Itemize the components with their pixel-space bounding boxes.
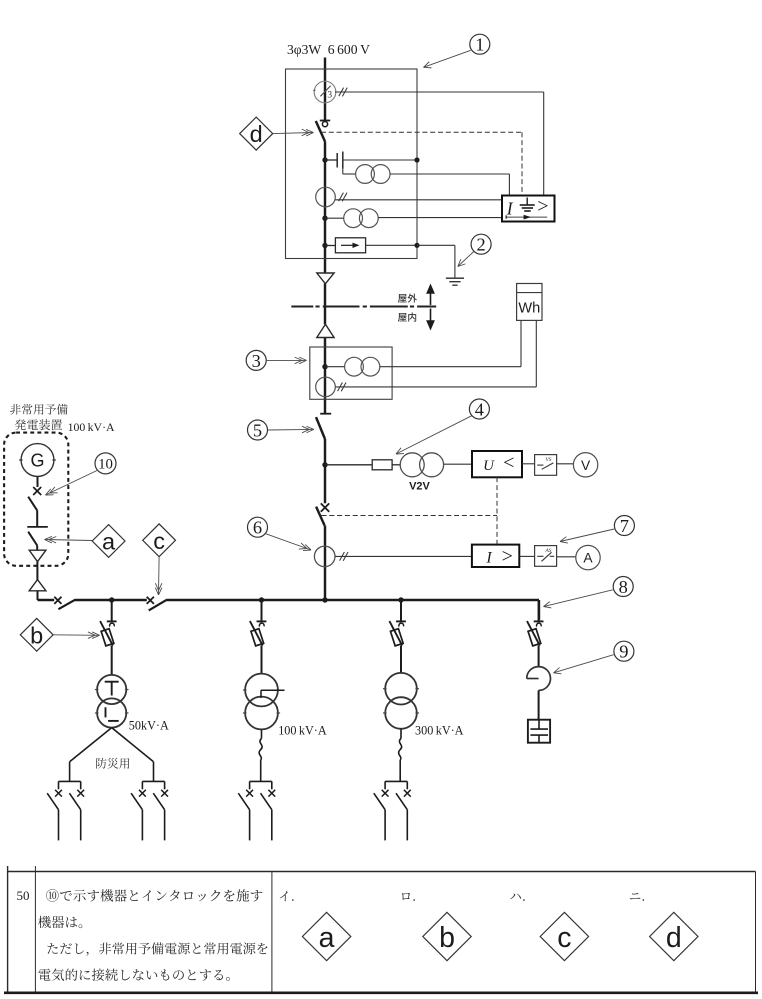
svg-text:6: 6: [253, 518, 262, 538]
svg-text:I: I: [485, 550, 492, 567]
svg-text:c: c: [153, 528, 165, 554]
svg-text:5: 5: [253, 421, 262, 441]
svg-text:3φ3W 6 600 V: 3φ3W 6 600 V: [287, 42, 370, 57]
svg-text:d: d: [250, 121, 263, 147]
svg-text:>: >: [502, 546, 513, 568]
svg-text:Wh: Wh: [518, 301, 540, 317]
svg-text:VS: VS: [546, 457, 552, 463]
svg-text:300 kV·A: 300 kV·A: [415, 723, 464, 737]
svg-text:50kV·A: 50kV·A: [129, 719, 169, 733]
svg-text:100 kV·A: 100 kV·A: [278, 723, 327, 737]
svg-text:V: V: [581, 458, 591, 473]
svg-text:8: 8: [619, 577, 628, 597]
svg-text:U: U: [483, 458, 495, 474]
svg-text:9: 9: [619, 642, 628, 662]
svg-text:>: >: [537, 196, 548, 218]
svg-text:3: 3: [252, 351, 261, 371]
svg-text:d: d: [666, 922, 682, 954]
svg-text:2: 2: [476, 235, 485, 255]
svg-text:7: 7: [620, 516, 629, 536]
svg-text:a: a: [102, 528, 116, 554]
svg-text:c: c: [557, 922, 571, 954]
svg-text:I: I: [506, 199, 514, 219]
svg-text:1: 1: [475, 35, 484, 55]
svg-text:10: 10: [98, 457, 113, 473]
svg-text:50: 50: [17, 888, 30, 903]
svg-text:100 kV·A: 100 kV·A: [68, 420, 115, 434]
svg-text:<: <: [503, 452, 514, 474]
svg-text:a: a: [319, 922, 335, 954]
svg-text:3: 3: [327, 91, 332, 101]
svg-text:A: A: [583, 551, 593, 566]
svg-text:b: b: [439, 922, 455, 954]
svg-text:V2V: V2V: [409, 481, 430, 493]
svg-text:b: b: [30, 622, 43, 648]
svg-text:4: 4: [475, 400, 484, 420]
svg-text:G: G: [30, 450, 44, 470]
